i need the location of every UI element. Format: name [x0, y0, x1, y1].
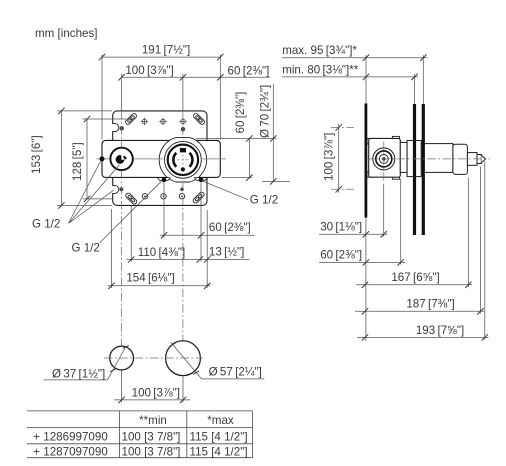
- dimension 128 [5"] vertical left: [71, 116, 126, 202]
- plate notch lower (side port G 1/2): [112, 185, 119, 193]
- centerline small valve (dash-dot vertical): [121, 111, 123, 370]
- wire: extension tip down: [484, 162, 486, 340]
- svg-text:187 [7⅜"]: 187 [7⅜"]: [406, 298, 454, 311]
- wire: extension line circle bottom tangent: [262, 180, 290, 182]
- svg-text:128 [5"]: 128 [5"]: [71, 142, 84, 181]
- small hole above bottom row 3: [180, 188, 184, 192]
- wire: extension line circle top tangent: [196, 138, 277, 140]
- wall surface min line: [413, 104, 416, 235]
- wall line mounting plate (edge-on): [365, 104, 368, 218]
- wire: extension small outlet down: [121, 370, 123, 402]
- svg-text:mm [inches]: mm [inches]: [35, 27, 98, 40]
- mounting plate: [113, 111, 207, 205]
- dimension 30 [1 1/8"]: [319, 220, 388, 237]
- svg-text:*max: *max: [207, 414, 234, 427]
- svg-text:100 [3⅞"]: 100 [3⅞"]: [323, 133, 336, 181]
- svg-text:G 1/2: G 1/2: [72, 242, 100, 255]
- wire: extension shaft shoulder down: [467, 178, 469, 288]
- dimension 100 [3 7/8"] top: [118, 64, 270, 81]
- label G 1/2 left (three leaders): [32, 161, 120, 230]
- wire: extension line body left: [101, 55, 103, 140]
- bottom port tab left: [158, 178, 171, 181]
- svg-text:60 [2⅜"]: 60 [2⅜"]: [234, 92, 247, 134]
- shaft nose cylinder: [467, 153, 477, 166]
- svg-text:100 [3 7/8"]: 100 [3 7/8"]: [122, 445, 181, 458]
- svg-text:110 [4⅜"]: 110 [4⅜"]: [138, 246, 185, 259]
- wire: extension body front down: [400, 179, 402, 265]
- slotted hole bottom-right: [192, 191, 205, 204]
- hole bottom row 3: [179, 194, 184, 199]
- svg-text:+ 1287097090: + 1287097090: [33, 445, 107, 458]
- svg-text:100 [3⅞"]: 100 [3⅞"]: [125, 64, 173, 77]
- outlet circle large (D57): [166, 341, 201, 376]
- svg-text:min. 80 [3⅛"]**: min. 80 [3⅛"]**: [282, 63, 359, 76]
- label diameter 37 with leader: [44, 345, 129, 380]
- screw hole top row 2: [159, 118, 166, 125]
- slotted hole top-left: [125, 113, 138, 126]
- svg-text:115 [4 1/2"]: 115 [4 1/2"]: [190, 430, 248, 443]
- dimension 100 [3 7/8"] side view vertical: [323, 124, 342, 193]
- shaft section A: [400, 142, 407, 172]
- centerline lower side port: [331, 188, 354, 190]
- svg-text:191 [7½"]: 191 [7½"]: [142, 44, 190, 57]
- dimension 167 [6 5/8"]: [356, 271, 472, 288]
- dimension 110 [4 3/8"] and 13 [1/2"]: [127, 246, 250, 263]
- bottom port tab right: [195, 178, 208, 181]
- centerline vertical through side port: [383, 142, 385, 184]
- centerline axis side view: [366, 158, 490, 160]
- wire: extension side port center down: [383, 184, 385, 237]
- svg-text:G 1/2: G 1/2: [250, 194, 278, 207]
- cartridge flange profile (flattened circle, D70): [159, 138, 207, 182]
- body centerline: [97, 158, 227, 160]
- svg-text:Ø 57 [2¼"]: Ø 57 [2¼"]: [209, 366, 262, 379]
- wire: extension plate right corner down: [206, 210, 208, 288]
- centerline big valve (dash-dot vertical): [182, 111, 184, 376]
- svg-text:154 [6⅛"]: 154 [6⅛"]: [126, 272, 174, 285]
- svg-text:60 [2⅜"]: 60 [2⅜"]: [320, 248, 362, 261]
- wire: extension from left port dot down: [163, 183, 165, 238]
- valve body: [102, 140, 220, 177]
- dimension 154 [6 1/8"]: [108, 272, 211, 289]
- dimension 187 [7 3/8"]: [355, 298, 484, 315]
- dimension 100 [3 7/8"] bottom view: [114, 386, 190, 403]
- wire: extension max line up: [422, 55, 424, 104]
- left inlet dot (body left end): [100, 156, 105, 161]
- svg-text:100 [3 7/8"]: 100 [3 7/8"]: [122, 430, 181, 443]
- svg-text:60 [2⅜"]: 60 [2⅜"]: [228, 64, 270, 77]
- screw hole top row 1: [141, 118, 148, 125]
- small hole below top row 3: [181, 127, 185, 131]
- wire: extension plate bottom down: [365, 218, 367, 342]
- wire: extension nose end down: [480, 167, 482, 314]
- svg-text:60 [2⅜"]: 60 [2⅜"]: [209, 221, 251, 234]
- label G 1/2 right (leader to right port dot): [202, 181, 278, 207]
- label G 1/2 lower-left (leader to left port dot): [72, 181, 162, 254]
- svg-text:100 [3⅞"]: 100 [3⅞"]: [132, 386, 180, 399]
- shaft middle cylinder: [421, 144, 453, 173]
- svg-text:30 [1⅛"]: 30 [1⅛"]: [320, 220, 362, 233]
- centerline upper side port: [331, 127, 354, 129]
- svg-text:Ø 37 [1½"]: Ø 37 [1½"]: [52, 368, 105, 381]
- wire: extension big valve centerline upper: [182, 74, 184, 111]
- dimension min. 80 [3 1/8"]**: [282, 63, 418, 80]
- shaft collar left: [407, 141, 421, 177]
- volume valve (small circle): [110, 148, 132, 170]
- dimension 191 [7 1/2"]: [99, 44, 224, 61]
- slotted hole top-right: [193, 113, 206, 126]
- hole bottom row 2: [161, 194, 166, 199]
- shaft nose step: [477, 155, 481, 164]
- plate notch upper (side port G 1/2): [112, 124, 119, 132]
- small hole near upper notch: [120, 126, 124, 130]
- svg-text:115 [4 1/2"]: 115 [4 1/2"]: [190, 445, 248, 458]
- dimension 60 [2 3/8"] side: [319, 248, 405, 265]
- svg-text:153 [6"]: 153 [6"]: [30, 135, 43, 174]
- svg-text:13 [½"]: 13 [½"]: [209, 246, 244, 259]
- dimension 60 [2 3/8"] vertical right: [234, 92, 253, 181]
- svg-text:167 [6⅝"]: 167 [6⅝"]: [391, 271, 439, 284]
- svg-text:193 [7⅝"]: 193 [7⅝"]: [416, 324, 464, 337]
- hole bottom row 1: [142, 194, 147, 199]
- valve body side view: [367, 136, 400, 179]
- wire: extension plate top up: [365, 55, 367, 103]
- outlet circle small (D37): [110, 346, 134, 370]
- wire: extension from bottom-left slot down: [130, 205, 132, 262]
- wire: extension large outlet down: [182, 377, 184, 403]
- shaft collar right: [453, 144, 468, 174]
- dimension 193 [7 5/8"]: [357, 324, 489, 341]
- svg-text:Ø 70 [2¾"]: Ø 70 [2¾"]: [259, 85, 272, 138]
- slotted hole bottom-left: [125, 192, 138, 205]
- bottom port dot left G 1/2: [162, 177, 167, 182]
- small hole near lower notch: [119, 187, 123, 191]
- side port circles: [373, 148, 395, 170]
- dimension diameter 70 [2 3/4"] vertical: [259, 84, 277, 185]
- dimension 60 [2 3/8"] bottom (port spacing): [160, 221, 255, 238]
- svg-text:**min: **min: [139, 414, 167, 427]
- dimension max. 95 [3 3/4"]*: [282, 44, 428, 61]
- label diameter 57 with leader: [170, 342, 265, 379]
- wire: extension small valve centerline upper: [121, 74, 123, 111]
- svg-text:+ 1286997090: + 1286997090: [33, 430, 107, 443]
- wire: extension line body right: [219, 55, 221, 140]
- shaft cone tip: [481, 155, 485, 163]
- thermostat cartridge (big circle): [165, 141, 202, 178]
- screw hole top row 3: [179, 118, 186, 125]
- wire: extension min line up: [414, 74, 416, 104]
- wire: extension line body bottom right: [222, 177, 253, 179]
- horizontal centerline bottom view: [104, 357, 203, 359]
- svg-text:G 1/2: G 1/2: [32, 218, 60, 231]
- svg-text:max. 95 [3¾"]*: max. 95 [3¾"]*: [282, 44, 357, 57]
- wire: extension plate left corner down: [111, 209, 113, 288]
- wall surface max line: [422, 104, 425, 235]
- bottom port dot right G 1/2: [199, 177, 204, 182]
- dimension 153 [6"] vertical left: [30, 108, 112, 209]
- wire: extension from right port dot down: [200, 183, 202, 262]
